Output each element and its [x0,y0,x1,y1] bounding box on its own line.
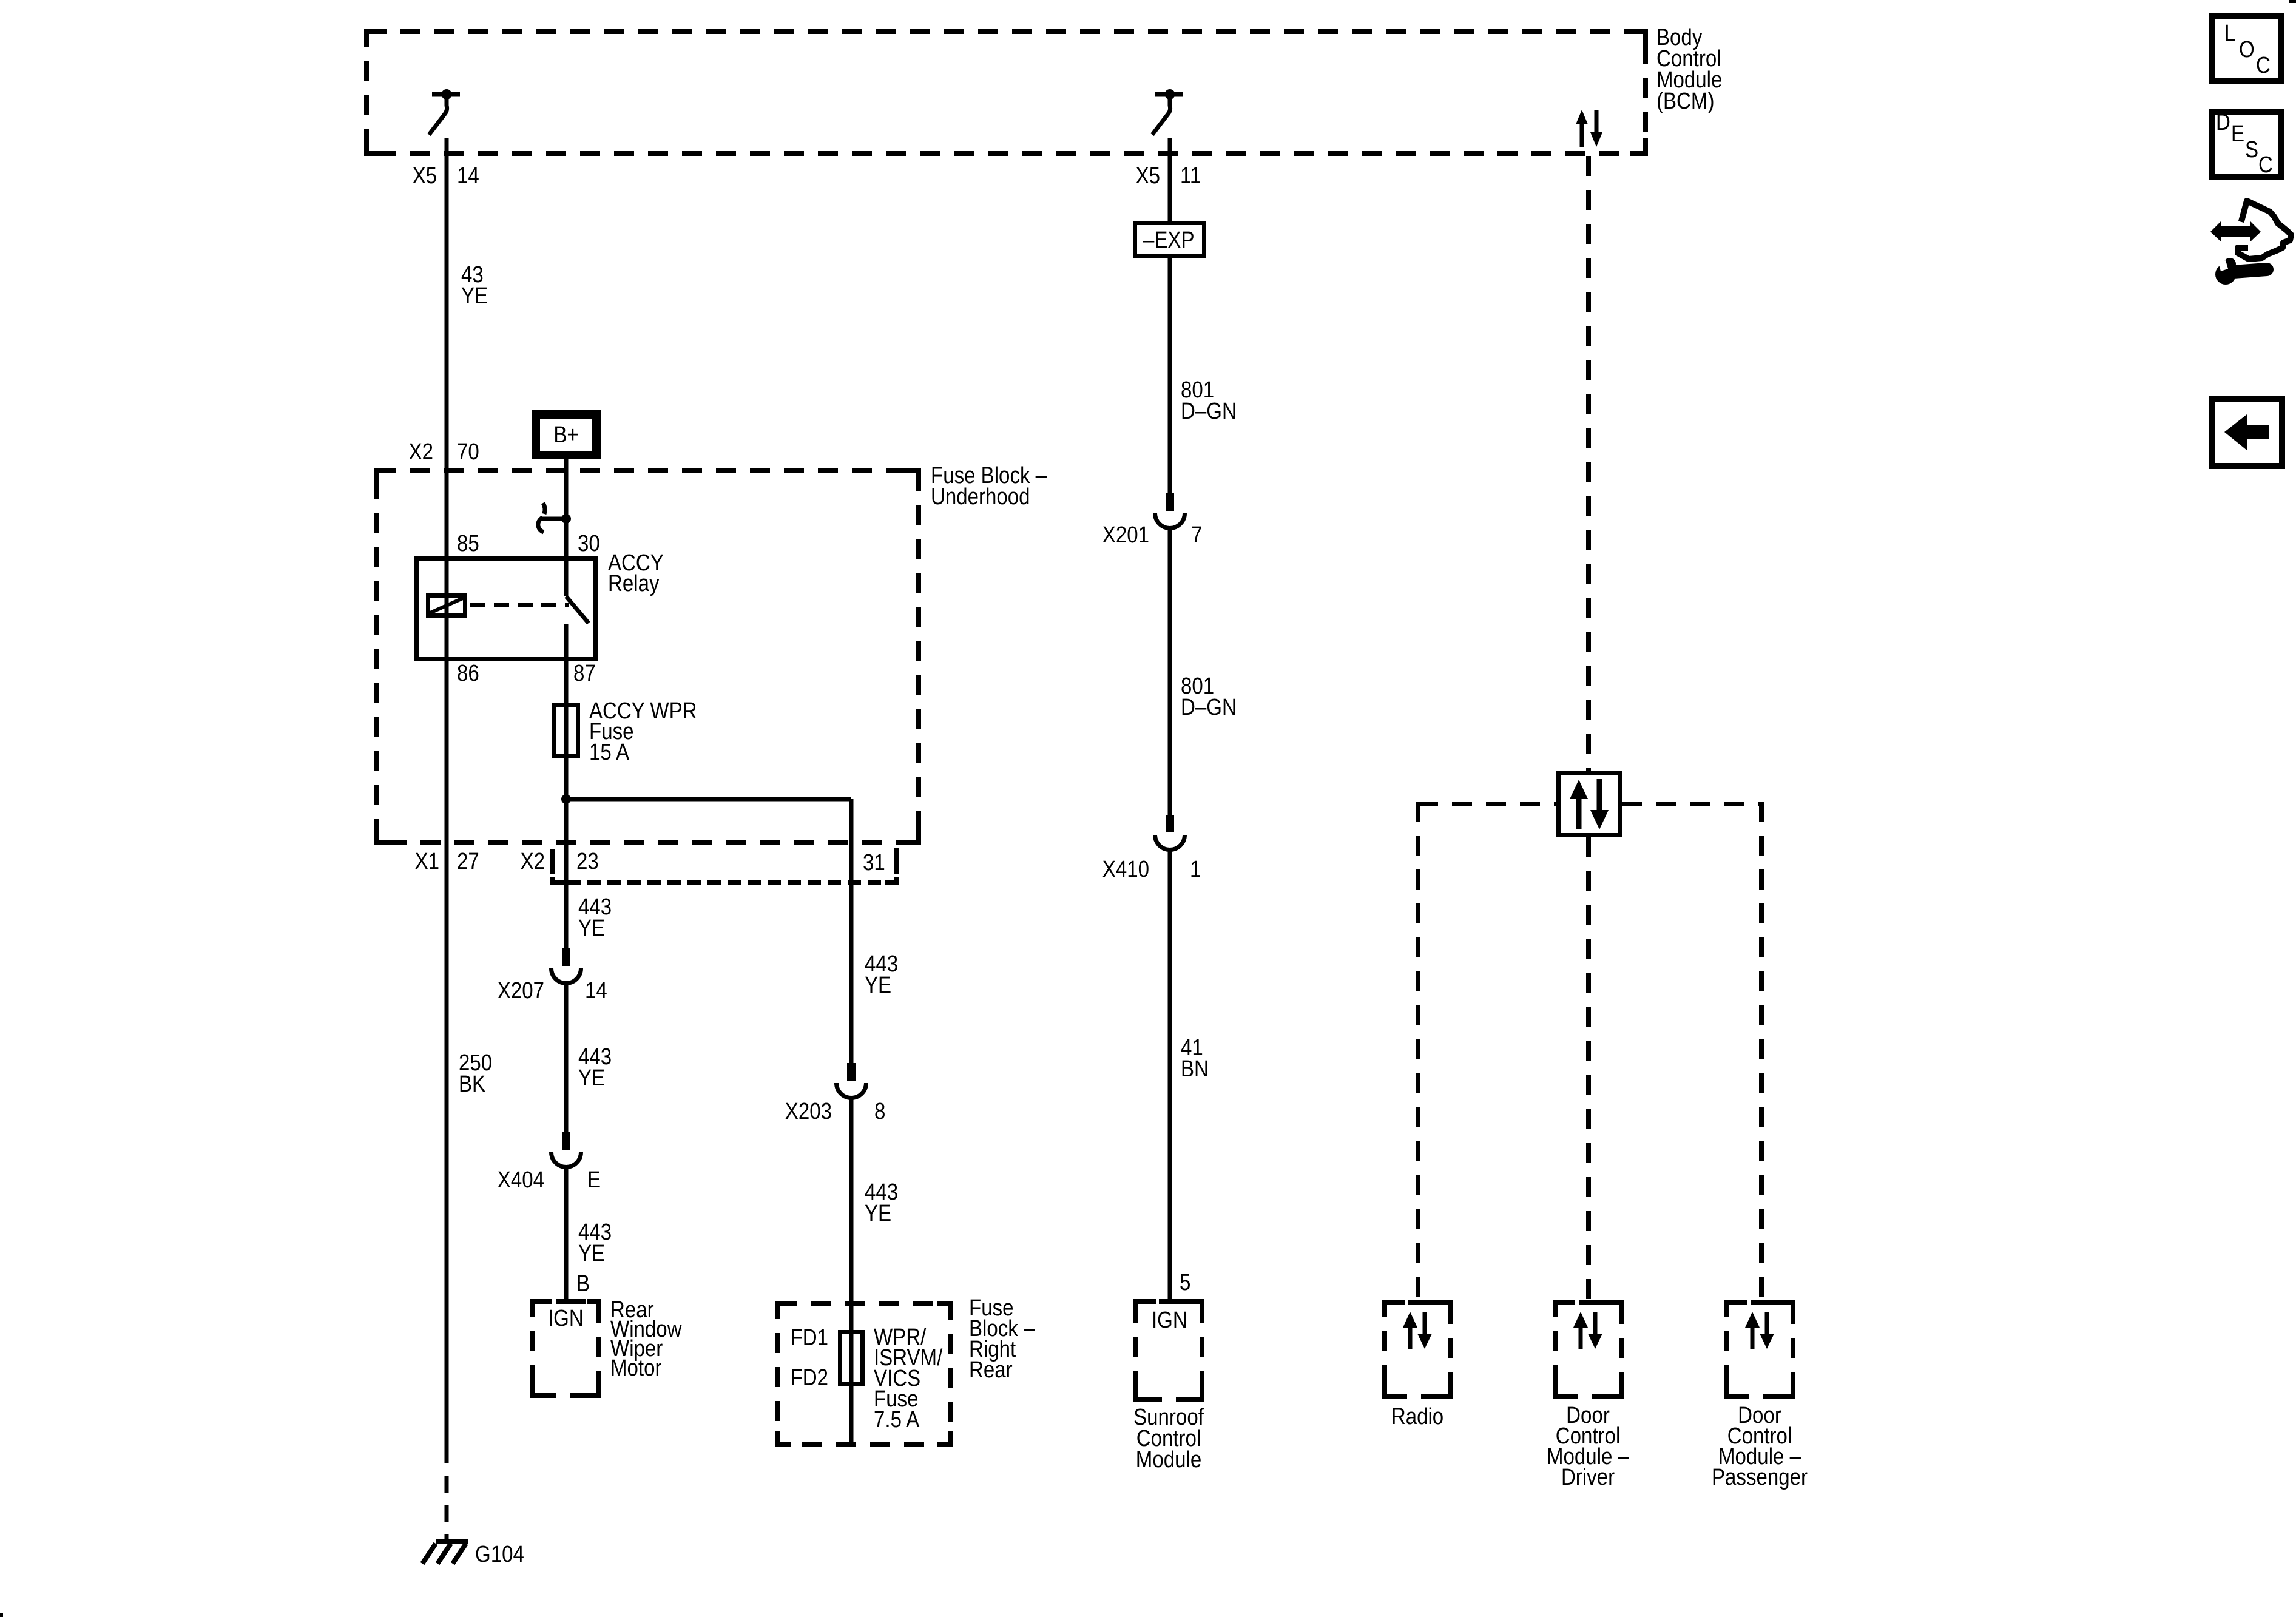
fuse WPR/ISRVM/VICS 7.5 A [840,1332,863,1385]
svg-text:YE: YE [461,283,488,309]
module box Fuse Block - Underhood dashed outline [376,470,919,843]
svg-text:IGN: IGN [548,1305,584,1331]
svg-text:Rear: Rear [969,1357,1013,1383]
junction node at relay pin 30 feed [561,514,571,524]
pin label B [576,1271,590,1297]
wire label 801 D-GN [1181,673,1237,720]
module box Door Control Module - Passenger [1727,1302,1793,1396]
svg-text:7: 7 [1191,522,1202,548]
wire serial data bus horizontal (dashed) [1418,802,1761,806]
svg-text:X404: X404 [498,1167,544,1193]
wire label 443 YE (right branch upper) [865,951,898,998]
icon DESC button [2212,109,2281,178]
svg-text:14: 14 [585,977,607,1004]
wire serial data to Radio (dashed) [1416,802,1420,1299]
svg-text:X410: X410 [1102,856,1149,882]
label Fuse Block - Underhood [931,462,1047,510]
svg-text:15 A: 15 A [589,739,629,765]
svg-text:FD1: FD1 [791,1325,828,1351]
wire X207 to X404 (circuit 443 YE) [564,983,569,1132]
connector X203 symbol [837,1063,866,1098]
connector X410 symbol [1155,815,1185,850]
label Radio [1391,1403,1443,1430]
module box BCM (Body Control Module) dashed outline [366,32,1646,154]
svg-text:7.5 A: 7.5 A [874,1406,920,1433]
svg-text:27: 27 [457,848,479,874]
svg-text:BK: BK [459,1071,485,1097]
svg-text:YE: YE [865,1200,891,1226]
wire middle vertical BCM X5-11 down to -EXP box [1168,138,1172,221]
connector label X207 | 14 [498,977,607,1004]
connector X207 symbol [552,948,581,983]
svg-text:YE: YE [578,915,605,941]
connector label X404 | E [498,1167,601,1193]
svg-text:G104: G104 [475,1541,524,1567]
svg-text:S: S [2245,137,2258,163]
svg-text:(BCM): (BCM) [1656,88,1714,114]
wire X201 to X410 (circuit 801 D-GN) [1168,528,1172,815]
connector X201 symbol [1155,493,1185,528]
svg-text:30: 30 [578,530,600,556]
module box Door Control Module - Driver [1555,1302,1621,1396]
connector label X203 | 8 [785,1098,886,1124]
connector label X5 | 14 [413,163,479,189]
icon LOC button [2212,16,2281,81]
svg-text:14: 14 [457,163,479,189]
connector label X5 | 11 [1136,163,1201,189]
net label box -EXP [1135,223,1204,257]
switch S2 inside BCM (sunroof/EXP output driver) [1152,89,1183,135]
svg-text:X201: X201 [1102,522,1149,548]
connector label X2 | 70 [409,439,479,465]
svg-text:Motor: Motor [610,1355,662,1381]
pin label 30 [578,530,600,556]
module box Radio [1385,1302,1451,1396]
svg-text:Passenger: Passenger [1712,1464,1808,1490]
svg-text:87: 87 [573,660,596,686]
pin label FD2 [791,1365,828,1391]
junction node below fuse [561,794,571,804]
svg-text:8: 8 [874,1098,885,1124]
wire serial data BCM to comm node (dashed) [1586,156,1591,771]
svg-text:B: B [576,1271,590,1297]
svg-text:85: 85 [457,530,479,556]
wire serial data to Door Control Module - Passenger (dashed) [1759,802,1764,1299]
module box Rear Window Wiper Motor [532,1301,599,1396]
wire label 443 YE (below fuse block, left) [578,894,612,941]
svg-text:–EXP: –EXP [1143,227,1195,253]
wire -EXP to connector X201 (circuit 801 D-GN) [1168,258,1172,493]
label Body Control Module (BCM) [1656,24,1722,114]
svg-text:Driver: Driver [1561,1464,1615,1490]
pin label 5 [1180,1269,1190,1295]
module box Sunroof Control Module [1136,1301,1202,1399]
wire label 250 BK [459,1050,492,1097]
wire junction down through fuse block X2-23 [564,799,569,948]
svg-text:X5: X5 [1136,163,1160,189]
svg-text:E: E [2231,121,2244,147]
switch S1 inside BCM (rear wiper output driver) [429,89,460,135]
wire X404 to Rear Window Wiper Motor pin B (circuit 443 YE) [564,1167,569,1299]
svg-text:C: C [2256,52,2271,78]
pin label 87 [573,660,596,686]
svg-text:B+: B+ [553,422,578,448]
svg-text:X207: X207 [498,977,544,1004]
svg-text:YE: YE [578,1065,605,1091]
connector X404 symbol [552,1132,581,1167]
svg-text:11: 11 [1180,163,1201,189]
svg-text:D–GN: D–GN [1181,398,1237,424]
label Sunroof Control Module [1133,1404,1204,1473]
relay ACCY Relay [416,558,595,659]
label ACCY WPR Fuse 15 A [589,698,697,765]
connector label X2 | 23 [521,848,599,874]
svg-text:FD2: FD2 [791,1365,828,1391]
svg-text:X1: X1 [415,848,439,874]
wire X410 to Sunroof Control Module pin 5 (circuit 41 BN) [1168,849,1172,1299]
svg-text:X5: X5 [413,163,437,189]
serial data arrows inside BCM [1576,110,1602,147]
power feed B+ [536,414,596,455]
svg-text:70: 70 [457,439,479,465]
svg-text:D–GN: D–GN [1181,694,1237,720]
svg-text:Module: Module [1136,1447,1201,1473]
pin label FD1 [791,1325,828,1351]
wire X203 to Fuse Block - Right Rear (circuit 443 YE) [849,1098,854,1445]
svg-text:1: 1 [1190,856,1201,882]
wire B+ to relay pin 30 [564,459,569,596]
ground G104 [422,1541,524,1567]
svg-text:Radio: Radio [1391,1403,1443,1430]
connector label X410 | 1 [1102,856,1201,882]
svg-text:31: 31 [863,849,885,876]
wire BCM X5-14 to ground G104 (left vertical, circuits 43 YE / 250 BK) [445,138,449,1463]
pin label 31 [863,849,885,876]
label Door Control Module - Driver [1547,1402,1629,1490]
svg-text:Underhood: Underhood [931,484,1030,510]
wire label 43 YE [461,262,488,309]
svg-text:23: 23 [576,848,599,874]
terminal hook symbol at junction above relay [538,503,566,532]
wire label 443 YE [865,1179,898,1226]
svg-text:C: C [2258,152,2273,178]
svg-text:X2: X2 [409,439,433,465]
icon hand with wrench (service) [2210,201,2291,285]
pin label 86 [457,660,479,686]
svg-text:Relay: Relay [608,570,660,596]
module box Fuse Block - Right Rear dashed outline [777,1303,950,1444]
fuse ACCY WPR 15 A [555,706,578,757]
wire label 801 D-GN [1181,377,1237,424]
label Fuse Block - Right Rear [969,1295,1035,1383]
svg-text:O: O [2239,36,2255,62]
svg-text:YE: YE [578,1240,605,1266]
pin label 85 [457,530,479,556]
connector label X201 | 7 [1102,522,1203,548]
svg-text:86: 86 [457,660,479,686]
connector X2 dashed boundary of fuse block [550,848,899,883]
label Door Control Module - Passenger [1712,1402,1808,1490]
serial data node box [1559,774,1620,836]
svg-text:D: D [2216,109,2230,135]
wire serial data to Door Control Module - Driver (dashed) [1586,837,1591,1299]
wire label 41 BN [1181,1035,1209,1082]
connector label X1 | 27 [415,848,479,874]
wire label 443 YE [578,1219,612,1266]
label WPR/ISRVM/VICS Fuse 7.5 A [874,1324,942,1433]
wire relay pin 87 to junction [564,624,569,799]
icon back arrow button [2212,399,2282,466]
svg-text:IGN: IGN [1152,1307,1187,1333]
label ACCY Relay [608,550,664,596]
wire junction to right branch [566,799,851,1063]
label Rear Window Wiper Motor [610,1297,682,1381]
svg-text:5: 5 [1180,1269,1190,1295]
svg-text:X203: X203 [785,1098,832,1124]
svg-text:YE: YE [865,972,891,998]
svg-text:E: E [587,1167,601,1193]
wire dashed segment to ground [445,1476,449,1541]
svg-text:L: L [2224,20,2235,46]
svg-text:X2: X2 [521,848,545,874]
wire label 443 YE [578,1044,612,1091]
svg-text:BN: BN [1181,1056,1209,1082]
